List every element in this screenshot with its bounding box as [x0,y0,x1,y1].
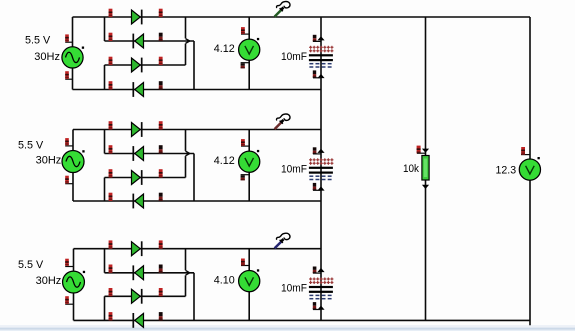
svg-text:5.5 V: 5.5 V [18,259,44,271]
svg-text:4.12: 4.12 [214,155,235,167]
svg-text:10mF: 10mF [281,51,307,63]
svg-text:10mF: 10mF [281,283,307,295]
svg-text:5.5 V: 5.5 V [25,34,51,46]
svg-text:5.5 V: 5.5 V [18,140,44,152]
svg-text:30Hz: 30Hz [36,275,62,287]
svg-text:30Hz: 30Hz [34,51,60,63]
svg-text:30Hz: 30Hz [36,155,62,167]
svg-text:4.12: 4.12 [214,43,235,55]
svg-text:4.10: 4.10 [214,274,235,286]
svg-text:10mF: 10mF [281,164,307,176]
svg-text:10k: 10k [403,163,419,175]
svg-text:12.3: 12.3 [496,164,517,176]
